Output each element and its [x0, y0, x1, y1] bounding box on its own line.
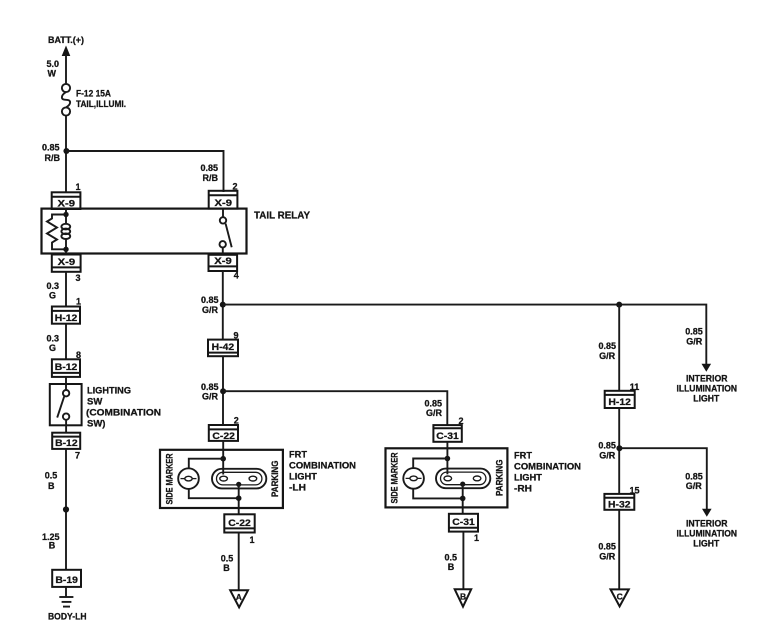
connector H-42 [208, 340, 238, 357]
connector C-22 pin 2 [209, 425, 238, 442]
svg-text:0.85: 0.85 [42, 143, 60, 153]
junction dot (wire gauge change) [63, 506, 69, 512]
svg-text:A: A [236, 592, 242, 602]
fuse F-12 15A [62, 84, 70, 116]
svg-text:G/R: G/R [599, 351, 616, 361]
svg-text:SW): SW) [87, 419, 105, 430]
wire fuse to junction and down to X-9 pin 1 [65, 116, 67, 193]
svg-text:1: 1 [250, 535, 255, 545]
arrow to interior illumination light (upper) [702, 364, 712, 372]
svg-text:ILLUMINATION: ILLUMINATION [677, 384, 738, 394]
svg-text:W: W [48, 69, 57, 79]
junction dot 0.85 G/R (to RH light) [220, 388, 226, 394]
parking bulb RH (twin filament) [436, 469, 490, 489]
svg-text:H-12: H-12 [55, 313, 78, 324]
svg-text:TAIL RELAY: TAIL RELAY [254, 210, 310, 222]
connector B-12 pin 8 [52, 359, 80, 377]
svg-text:4: 4 [234, 271, 239, 281]
node: coil bottom junction [63, 247, 68, 252]
svg-text:COMBINATION: COMBINATION [289, 461, 356, 472]
wire junction to interior illumination branch (horizontal bus) [223, 305, 707, 365]
connector H-12 pin 11 [605, 391, 635, 408]
wire C-31 pin 2 into RH lamp [446, 442, 448, 475]
svg-text:5.0: 5.0 [47, 59, 60, 69]
arrow to battery feed [62, 46, 71, 57]
connector H-32 pin 15 [604, 494, 634, 510]
wire C-22 pin 1 to connector A [238, 533, 240, 591]
svg-text:B: B [460, 591, 466, 601]
connector C-22 pin 1 [224, 514, 254, 532]
svg-text:0.85: 0.85 [598, 440, 616, 450]
wire RH bulb return [462, 484, 464, 514]
wire battery arrow to fuse [65, 55, 67, 84]
svg-text:2: 2 [234, 416, 239, 426]
wire B-19 to ground [65, 587, 67, 597]
svg-text:0.85: 0.85 [685, 472, 703, 482]
wire B-12 pin 7 to B-19 [65, 449, 67, 570]
wire B-12 to switch contact [65, 377, 67, 390]
wire to RH side marker bulb [413, 459, 447, 469]
svg-text:-RH: -RH [514, 484, 532, 495]
svg-text:H-12: H-12 [608, 397, 631, 408]
connector X-9 pin 4 [209, 255, 238, 271]
junction dot at interior illumination bus [616, 302, 622, 308]
wire C-22 pin 2 into LH lamp [222, 441, 224, 475]
svg-text:0.85: 0.85 [425, 399, 443, 409]
wire X-9 pin 3 to H-12 [65, 272, 67, 307]
wire bus junction down to H-12 pin 11 [618, 305, 620, 391]
svg-text:B: B [48, 481, 55, 491]
lighting switch contacts [57, 390, 69, 433]
svg-text:PARKING: PARKING [495, 460, 505, 497]
svg-text:B-12: B-12 [55, 362, 78, 373]
ground BODY-LH [59, 597, 73, 607]
side marker bulb RH [403, 468, 424, 489]
connector arrow C [611, 589, 629, 606]
connector H-12 [52, 307, 80, 324]
svg-text:LIGHT: LIGHT [693, 538, 719, 548]
junction dot RH return [460, 496, 466, 502]
connector arrow A [230, 590, 248, 607]
relay coil loops [61, 224, 70, 239]
svg-text:7: 7 [75, 451, 80, 461]
svg-text:FRT: FRT [514, 451, 532, 462]
svg-text:C-22: C-22 [212, 431, 235, 442]
svg-text:G/R: G/R [599, 450, 616, 460]
svg-text:0.3: 0.3 [47, 334, 60, 344]
junction dot lower branch [616, 445, 622, 451]
wire to LH side marker bulb [189, 459, 223, 469]
wire H-32 to connector C [618, 510, 620, 590]
svg-text:R/B: R/B [45, 153, 61, 163]
svg-text:0.85: 0.85 [599, 341, 617, 351]
wire C-31 pin 1 to connector B [462, 532, 464, 590]
side marker bulb LH [178, 468, 199, 489]
svg-text:LIGHT: LIGHT [514, 473, 542, 484]
FRT combination light -RH box [386, 448, 508, 507]
connector C-31 pin 2 [433, 425, 461, 442]
svg-text:PARKING: PARKING [270, 461, 280, 498]
connector X-9 pin 3 [52, 255, 81, 272]
wire H-42 to C-22 pin 2 [222, 356, 224, 425]
connector B-19 [52, 570, 81, 587]
connector X-9 pin 2 [209, 191, 238, 209]
svg-text:1: 1 [474, 533, 479, 543]
svg-text:0.85: 0.85 [201, 163, 219, 173]
junction dot 0.85 G/R [220, 302, 226, 308]
svg-text:H-32: H-32 [608, 499, 631, 510]
svg-text:X-9: X-9 [214, 256, 232, 267]
connector X-9 pin 1 [52, 192, 81, 209]
wire H-12 to B-12 [65, 324, 67, 360]
svg-text:0.85: 0.85 [201, 382, 219, 392]
svg-text:LIGHT: LIGHT [693, 394, 719, 404]
junction dot LH lamp feed [220, 456, 226, 462]
svg-text:X-9: X-9 [58, 257, 76, 268]
wire H-12 pin 11 to H-32 pin 15 [618, 408, 620, 494]
node inside RH parking bulb [460, 482, 465, 487]
svg-text:X-9: X-9 [215, 198, 233, 209]
svg-text:G: G [49, 343, 56, 353]
svg-text:B: B [49, 541, 56, 551]
svg-text:BODY-LH: BODY-LH [48, 612, 87, 623]
svg-text:0.5: 0.5 [45, 471, 58, 481]
wire RH side marker return [413, 488, 463, 498]
svg-text:1: 1 [76, 297, 81, 307]
svg-text:G/R: G/R [599, 551, 616, 561]
svg-text:0.3: 0.3 [47, 281, 60, 291]
svg-text:(COMBINATION: (COMBINATION [86, 408, 161, 419]
relay coil wire [65, 209, 67, 224]
svg-text:B: B [448, 562, 455, 572]
svg-text:G/R: G/R [202, 305, 219, 315]
lighting switch box [50, 384, 82, 425]
parking bulb LH (twin filament) [212, 469, 266, 489]
svg-text:G/R: G/R [426, 408, 443, 418]
svg-text:SIDE MARKER: SIDE MARKER [390, 452, 400, 503]
node: coil top junction [63, 212, 68, 217]
wire junction to interior illumination light (lower) [619, 448, 706, 509]
svg-text:SW: SW [87, 397, 102, 408]
relay box TAIL RELAY [42, 209, 247, 254]
svg-text:C-31: C-31 [436, 431, 459, 442]
svg-text:BATT.(+): BATT.(+) [48, 35, 84, 46]
svg-text:FRT: FRT [289, 450, 307, 461]
svg-text:3: 3 [76, 273, 81, 283]
svg-text:C: C [617, 591, 623, 601]
svg-text:0.5: 0.5 [445, 553, 458, 563]
connector C-31 pin 1 [449, 514, 478, 532]
svg-text:INTERIOR: INTERIOR [686, 518, 728, 528]
svg-text:G/R: G/R [686, 337, 703, 347]
connector B-12 pin 7 [52, 433, 80, 449]
wire LH side marker return [189, 488, 239, 498]
svg-text:B-12: B-12 [55, 438, 78, 449]
wire X-9 pin 4 to H-42 [222, 271, 224, 340]
svg-text:F-12 15A: F-12 15A [76, 89, 111, 100]
svg-text:0.85: 0.85 [685, 327, 703, 337]
arrow to interior illumination light (lower) [702, 509, 712, 517]
svg-text:ILLUMINATION: ILLUMINATION [677, 528, 738, 538]
node inside LH parking bulb [236, 482, 241, 487]
svg-text:G/R: G/R [686, 481, 703, 491]
FRT combination light -LH box [160, 450, 283, 508]
svg-text:G: G [49, 291, 56, 301]
connector arrow B [455, 589, 472, 606]
relay switch contact [220, 209, 232, 254]
svg-text:LIGHTING: LIGHTING [87, 386, 131, 397]
svg-text:INTERIOR: INTERIOR [686, 374, 728, 384]
svg-text:-LH: -LH [289, 483, 306, 494]
wire junction to relay pin 2 [66, 151, 223, 192]
svg-text:1: 1 [76, 182, 81, 192]
svg-text:B: B [223, 563, 230, 573]
svg-text:C-31: C-31 [452, 517, 475, 528]
svg-text:0.5: 0.5 [221, 554, 234, 564]
svg-text:0.85: 0.85 [598, 541, 616, 551]
junction dot LH return [236, 495, 242, 501]
svg-text:H-42: H-42 [212, 342, 235, 353]
wire junction to C-31 pin 2 (RH branch) [223, 391, 447, 425]
svg-text:G/R: G/R [202, 392, 219, 402]
svg-text:SIDE MARKER: SIDE MARKER [165, 453, 175, 504]
svg-text:COMBINATION: COMBINATION [514, 462, 581, 473]
svg-text:R/B: R/B [203, 173, 219, 183]
svg-text:TAIL,ILLUMI.: TAIL,ILLUMI. [76, 99, 126, 110]
svg-text:C-22: C-22 [228, 518, 251, 529]
svg-text:B-19: B-19 [55, 575, 78, 586]
svg-text:0.85: 0.85 [201, 295, 219, 305]
relay coil resistor (parallel branch) [47, 215, 66, 250]
svg-text:LIGHT: LIGHT [289, 472, 317, 483]
junction dot RH lamp feed [445, 456, 451, 462]
junction dot at fuse output [63, 148, 69, 154]
wire LH bulb return [238, 484, 240, 514]
